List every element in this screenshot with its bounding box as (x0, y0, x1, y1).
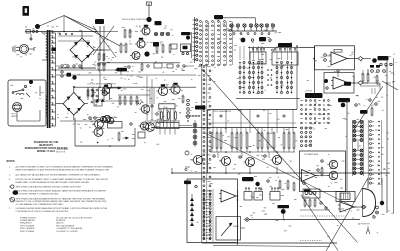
svg-text:ALL CAPACITOR VALUES ARE IN uF: ALL CAPACITOR VALUES ARE IN uF UNLESS MA… (16, 173, 101, 176)
svg-text:CRT AMPLIFIER: CRT AMPLIFIER (304, 153, 319, 156)
svg-text:REFERS TO THE CORRESPONDING WA: REFERS TO THE CORRESPONDING WAVEFORM CHA… (16, 200, 107, 203)
svg-text:ALL RESISTORS ARE 1/2 WATT, 10: ALL RESISTORS ARE 1/2 WATT, 10% TOLERANC… (16, 166, 114, 169)
svg-text:HIGH VOLTAGE POWER SUPPLY: HIGH VOLTAGE POWER SUPPLY (122, 18, 151, 21)
svg-text:VOLTAGES SHOWN WERE MEASURED W: VOLTAGES SHOWN WERE MEASURED WITH VTVM A… (16, 207, 108, 210)
svg-text:50/60 Hz: 50/60 Hz (56, 223, 64, 225)
svg-text:.01 uA/STEP TO 100 mA/STEP: .01 uA/STEP TO 100 mA/STEP (56, 227, 83, 230)
svg-text:SWEEP: SWEEP (233, 226, 239, 228)
svg-text:STEP CURRENT: STEP CURRENT (20, 228, 36, 230)
svg-text:THIS SYMBOL INDICATES A VOLTAG: THIS SYMBOL INDICATES A VOLTAGE READING … (16, 190, 107, 193)
svg-text:+150V: +150V (122, 88, 128, 90)
svg-text:STEP GENERATOR: STEP GENERATOR (213, 110, 232, 113)
svg-text:MODEL IT-1121: MODEL IT-1121 (37, 150, 56, 153)
svg-text:NOTES:: NOTES: (7, 161, 16, 163)
svg-text:POWER RATING: POWER RATING (20, 219, 35, 222)
svg-text:STEP VOLTAGE: STEP VOLTAGE (20, 230, 35, 233)
svg-text:OUTPUT: OUTPUT (305, 91, 313, 93)
svg-text:SELECTOR: SELECTOR (56, 152, 66, 154)
svg-text:FREQUENCY: FREQUENCY (20, 223, 33, 225)
svg-text:LETTER ON THE SCHEMATIC NEXT T: LETTER ON THE SCHEMATIC NEXT TO EACH PAR… (16, 178, 109, 181)
svg-text:OF THIS MANUAL FOR COMPARISON: OF THIS MANUAL FOR COMPARISON PURPOSES. (16, 203, 64, 206)
svg-text:36 WATTS: 36 WATTS (56, 219, 66, 222)
svg-text:LOW VOLTAGE POWER SUPPLY: LOW VOLTAGE POWER SUPPLY (87, 83, 117, 86)
svg-text:BOARD PART LOCATION AREA FOR T: BOARD PART LOCATION AREA FOR THE PARTICU… (16, 181, 90, 184)
svg-text:105-125 V AC OR 210-250 V AC S: 105-125 V AC OR 210-250 V AC SOURCE (56, 216, 93, 219)
svg-text:FROM POINT SHOWN TO CHASSIS GR: FROM POINT SHOWN TO CHASSIS GROUND. (16, 193, 60, 196)
svg-text:THIS SYMBOL INDICATES A CHASSI: THIS SYMBOL INDICATES A CHASSIS GROUND C… (16, 185, 82, 188)
svg-text:CONTINUATION OF THE FOLLOWING: CONTINUATION OF THE FOLLOWING SECTION NO… (16, 210, 69, 213)
svg-text:FOCUS: FOCUS (304, 197, 310, 199)
svg-text:.01 V/STEP TO 2 V/STEP: .01 V/STEP TO 2 V/STEP (56, 231, 78, 233)
svg-text:POWER SOURCE: POWER SOURCE (20, 217, 36, 219)
svg-text:TEST VOLTAGE: TEST VOLTAGE (20, 224, 35, 227)
svg-text:THIS SYMBOL INDICATES A WAVEFO: THIS SYMBOL INDICATES A WAVEFORM PHOTO T… (16, 198, 106, 201)
svg-text:RESISTORS MARKED 5% ARE SHOWN: RESISTORS MARKED 5% ARE SHOWN WITH AN AS… (16, 168, 110, 171)
svg-text:FULLY ADJUSTABLE: FULLY ADJUSTABLE (56, 224, 75, 227)
